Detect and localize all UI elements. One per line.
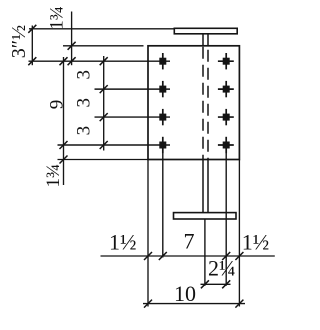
bottom beam web centerline extension xyxy=(204,219,206,286)
tick 3-3-3 row1 xyxy=(100,57,108,65)
svg-text:3: 3 xyxy=(74,126,95,136)
tick 10 right xyxy=(235,300,243,308)
bolt row 4 extension line xyxy=(58,144,171,146)
bolt R4 xyxy=(218,137,234,153)
dimension line 1.75 top xyxy=(71,12,73,66)
tick 1.75 plate top xyxy=(68,42,76,50)
plate right edge extension line xyxy=(238,160,240,307)
dimension line 3-3-3 xyxy=(103,56,105,151)
hidden web dashed line left xyxy=(202,47,204,159)
tick 1.75 row1 xyxy=(68,57,76,65)
bolt L1 xyxy=(159,53,166,69)
svg-text:1¾: 1¾ xyxy=(43,164,64,188)
tick 3.5 top xyxy=(28,25,36,33)
tick bottom A right bolt col xyxy=(222,252,230,260)
splice plate xyxy=(148,46,239,160)
tick plate bottom 1.75 xyxy=(60,156,68,164)
bolt L3 xyxy=(159,109,166,125)
bolt row 1 extension line xyxy=(29,60,171,62)
bolts xyxy=(159,53,234,153)
top beam web line right xyxy=(207,34,209,46)
bottom dimension line 1.5/7/1.5 xyxy=(101,255,275,257)
bolt R1 xyxy=(218,53,234,69)
top beam flange xyxy=(174,28,237,34)
svg-text:10: 10 xyxy=(174,281,196,306)
svg-text:7: 7 xyxy=(184,229,195,254)
right bolt column extension line xyxy=(225,150,227,286)
svg-text:3: 3 xyxy=(74,70,95,80)
tick 2.25 right xyxy=(222,280,230,288)
plate top extension line xyxy=(63,45,144,47)
bolt row 3 extension line xyxy=(95,116,171,118)
top beam web line left xyxy=(202,34,204,46)
bottom dimension line 2.25 xyxy=(201,283,231,285)
svg-text:1¾: 1¾ xyxy=(47,6,68,30)
tick bottom A plate right xyxy=(235,252,243,260)
tick 3-3-3 row2 xyxy=(100,85,108,93)
plate left edge extension line xyxy=(147,160,149,307)
tick bottom A left bolt col xyxy=(159,252,167,260)
beam top extension line xyxy=(29,28,174,30)
bolt row 2 extension line xyxy=(95,88,171,90)
bottom dimension line 10 xyxy=(143,303,245,305)
bolt L4 xyxy=(159,137,166,153)
tick 3-3-3 row4 xyxy=(100,141,108,149)
bottom beam flange xyxy=(174,213,237,219)
plate bottom extension line xyxy=(58,159,149,161)
svg-text:9: 9 xyxy=(47,100,68,110)
svg-text:3: 3 xyxy=(74,98,95,108)
svg-text:1½: 1½ xyxy=(242,230,269,255)
tick bottom A plate left xyxy=(144,252,152,260)
svg-text:3″½: 3″½ xyxy=(8,25,30,58)
tick marks xyxy=(28,25,243,308)
tick 2.25 left xyxy=(201,280,209,288)
bolt R2 xyxy=(218,81,234,97)
left bolt column extension line xyxy=(162,150,164,258)
svg-text:1½: 1½ xyxy=(109,230,137,255)
dimension line 3.5 xyxy=(31,26,33,66)
tick 9 top xyxy=(60,57,68,65)
hidden web dashed line right xyxy=(207,50,209,159)
dimension line 9 and 1.75 bottom xyxy=(63,57,65,185)
bottom beam web line left xyxy=(202,160,204,213)
bolt R3 xyxy=(218,109,234,125)
tick 10 left xyxy=(144,300,152,308)
tick 3-3-3 row3 xyxy=(100,113,108,121)
bolt L2 xyxy=(159,81,166,97)
tick 3.5 bottom xyxy=(28,57,36,65)
bottom beam web line right xyxy=(207,160,209,213)
tick 9 bottom xyxy=(60,141,68,149)
svg-text:2¼: 2¼ xyxy=(208,256,236,281)
